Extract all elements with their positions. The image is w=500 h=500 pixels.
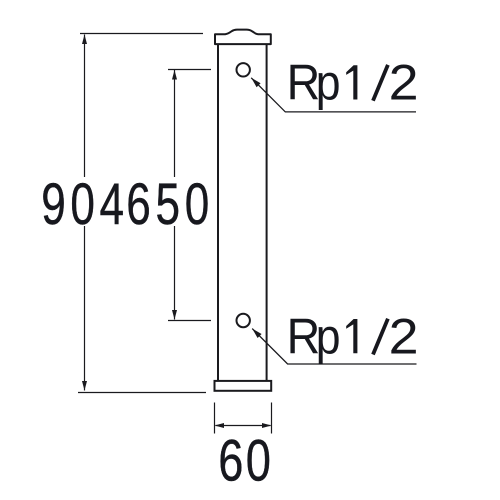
svg-text:2: 2 (389, 309, 419, 365)
svg-text:p: p (316, 309, 341, 365)
svg-text:2: 2 (389, 55, 419, 111)
svg-text:904: 904 (41, 171, 128, 236)
svg-text:p: p (316, 55, 341, 111)
svg-text:650: 650 (126, 171, 214, 236)
svg-text:60: 60 (218, 429, 273, 494)
